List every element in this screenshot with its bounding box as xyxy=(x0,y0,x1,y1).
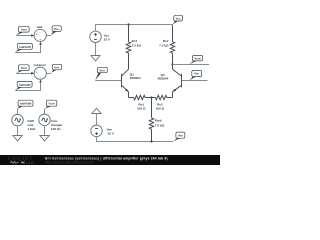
resistor Re1 100 ohm xyxy=(129,95,152,99)
op add U1 xyxy=(34,25,46,42)
svg-text:2N3904: 2N3904 xyxy=(130,76,141,80)
wire Vcc top rail xyxy=(96,24,173,26)
footer title text xyxy=(45,156,168,164)
svg-text:http://circuitlab.com/c/y7sr2f: http://circuitlab.com/c/y7sr2f xyxy=(45,161,94,165)
ground under V2 xyxy=(40,136,49,141)
wire add output xyxy=(46,35,51,37)
wire Vcc to ground xyxy=(95,43,97,56)
svg-text:Vin+: Vin+ xyxy=(99,68,105,72)
arrow into subtract left xyxy=(31,72,34,75)
label Q2 xyxy=(157,73,168,81)
wire Vout xyxy=(173,64,210,66)
label Rc2 xyxy=(159,39,169,47)
svg-text:Vcm: Vcm xyxy=(49,102,56,106)
footer CircuitLab logo xyxy=(8,157,34,165)
resistor Rc2 7.5k xyxy=(170,25,174,70)
svg-text:Rc1: Rc1 xyxy=(132,39,138,43)
svg-text:Vcm: Vcm xyxy=(21,66,28,70)
node emitter junction xyxy=(150,96,152,98)
svg-text:15 V: 15 V xyxy=(104,37,111,41)
node Vin- flag (Q2 base) xyxy=(190,71,202,81)
svg-text:halfVdiff: halfVdiff xyxy=(20,102,32,106)
wire V2 bottom xyxy=(44,126,46,136)
wire subtract bottom input xyxy=(15,82,40,90)
source V2 Vcm triangle 100 Hz xyxy=(39,114,51,126)
label Re1 xyxy=(137,103,146,111)
svg-text:100 Ω: 100 Ω xyxy=(137,106,146,110)
svg-text:100 Ω: 100 Ω xyxy=(156,106,165,110)
op subtract U2 xyxy=(33,63,46,80)
ground above Vee (flipped) xyxy=(92,108,101,113)
svg-text:100 Hz: 100 Hz xyxy=(51,127,61,131)
footer bar xyxy=(0,155,220,165)
source V4 Vee -15 V xyxy=(91,125,103,137)
svg-text:Vout: Vout xyxy=(194,57,200,61)
node junction Rtail/Vee rail xyxy=(150,140,152,142)
label Rc1 xyxy=(132,39,142,47)
svg-text:1 kHz: 1 kHz xyxy=(27,127,36,131)
node Vout junction xyxy=(171,63,173,65)
svg-text:Rc2: Rc2 xyxy=(163,39,169,43)
source V1 Vdiff sine 1 kHz xyxy=(12,114,24,126)
ground under V1 xyxy=(13,136,22,141)
svg-text:Vee: Vee xyxy=(178,133,183,137)
svg-text:subtract: subtract xyxy=(33,63,45,67)
wire V2 top xyxy=(44,109,46,115)
svg-text:+: + xyxy=(36,71,38,75)
node halfVdiff flag (source V1) xyxy=(17,100,33,109)
label V4 xyxy=(107,128,115,136)
svg-text:Vin+: Vin+ xyxy=(54,27,60,31)
wire add bottom input xyxy=(15,44,40,52)
resistor Rtail 7.5k xyxy=(149,98,153,142)
wire subtract output xyxy=(46,73,51,75)
source V3 Vcc 15 V xyxy=(90,31,102,43)
node Vin+ flag (add output) xyxy=(51,26,62,35)
arrow into adder bottom xyxy=(39,42,42,45)
wire V1 bottom xyxy=(17,126,19,136)
resistor Re2 100 ohm xyxy=(152,95,173,99)
wire ground to Vee xyxy=(96,114,98,126)
wire V1 top xyxy=(17,109,19,115)
node Vin+ flag (Q1 base) xyxy=(95,67,107,80)
arrow into subtract bottom xyxy=(39,80,42,83)
svg-text:+: + xyxy=(39,38,41,42)
label V3 xyxy=(104,33,111,41)
transistor Q1 2N3904 xyxy=(122,69,129,97)
node halfVdiff flag (subtract bottom input) xyxy=(15,81,32,90)
svg-text:add: add xyxy=(37,25,43,29)
label Q1 xyxy=(130,73,141,81)
svg-text:LAB: LAB xyxy=(26,160,34,165)
node Vee flag xyxy=(173,132,185,141)
svg-text:7.5 kΩ: 7.5 kΩ xyxy=(159,43,169,47)
wire add input xyxy=(16,35,31,37)
label Re2 xyxy=(156,103,165,111)
svg-text:Vin-: Vin- xyxy=(194,72,199,76)
transistor Q2 2N3904 (mirrored) xyxy=(173,69,182,97)
svg-text:7.5 kΩ: 7.5 kΩ xyxy=(132,43,142,47)
wire Q1 base xyxy=(95,80,121,82)
svg-text:halfVdiff: halfVdiff xyxy=(19,83,31,87)
svg-text:Vcc: Vcc xyxy=(176,16,182,20)
svg-text:−: − xyxy=(39,76,41,80)
arrow into adder left xyxy=(31,34,34,37)
label V2 xyxy=(51,119,62,131)
label Rtail xyxy=(155,119,165,128)
svg-text:7.5 kΩ: 7.5 kΩ xyxy=(155,123,165,127)
node Vcc flag (top right) xyxy=(173,15,183,24)
ground under Vcc xyxy=(91,56,100,61)
node Vcm flag (source V2) xyxy=(45,100,57,109)
label V1 xyxy=(27,119,36,131)
node halfVdiff flag (add bottom input) xyxy=(15,43,32,52)
svg-text:Vin-: Vin- xyxy=(54,65,59,69)
wire Vcc riser xyxy=(95,24,97,31)
svg-text:2N3904: 2N3904 xyxy=(157,77,168,81)
node Vin- flag (subtract output) xyxy=(51,64,62,73)
svg-text:+: + xyxy=(36,33,38,37)
wire Q2 base xyxy=(182,80,208,82)
svg-text:-15 V: -15 V xyxy=(107,132,115,136)
svg-text:Rtail: Rtail xyxy=(155,119,162,123)
wire subtract input xyxy=(16,73,31,75)
wire Vee bottom rail xyxy=(97,137,174,142)
resistor Rc1 7.5k xyxy=(126,25,130,70)
node junction rail/Rc1 xyxy=(127,23,129,25)
node Vcm flag (subtract input) xyxy=(16,65,29,73)
svg-text:halfVdiff: halfVdiff xyxy=(19,45,31,49)
svg-text:Vcm: Vcm xyxy=(21,28,28,32)
node Vcm flag (add input) xyxy=(16,26,29,35)
node Vout flag xyxy=(189,56,203,65)
